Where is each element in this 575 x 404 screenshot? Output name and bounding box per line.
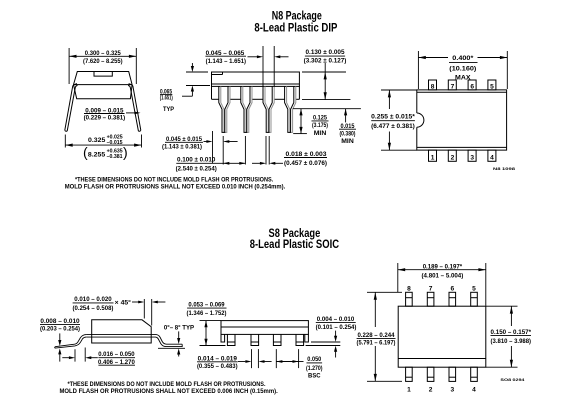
title S8 Package bbox=[250, 228, 339, 251]
svg-text:BSC: BSC bbox=[308, 373, 321, 380]
svg-text:1: 1 bbox=[407, 386, 411, 393]
SOIC top view pin 7 bbox=[427, 292, 434, 306]
SOIC front view lead 2 bbox=[251, 334, 259, 345]
svg-text:(1.651): (1.651) bbox=[160, 95, 173, 102]
svg-text:N8 1098: N8 1098 bbox=[493, 166, 516, 171]
svg-text:7: 7 bbox=[451, 83, 455, 90]
DIP side view lead 3 bbox=[263, 86, 274, 132]
svg-text:(5.791 – 6.197): (5.791 – 6.197) bbox=[357, 340, 396, 347]
svg-text:0.300 – 0.325: 0.300 – 0.325 bbox=[85, 50, 121, 57]
DIP side view lead 4 bbox=[285, 86, 296, 132]
dim 0.150-0.157 (3.810-3.988) body depth bbox=[486, 306, 532, 367]
dim 0.325 +0.025/-0.015 lead span bbox=[65, 135, 141, 161]
svg-text:(6.477 ± 0.381): (6.477 ± 0.381) bbox=[371, 123, 415, 130]
svg-text:(0.203 – 0.254): (0.203 – 0.254) bbox=[40, 326, 80, 333]
dim 0.100±0.010 (2.540±0.254) lead pitch bbox=[176, 136, 246, 173]
svg-text:(1.143 ± 0.381): (1.143 ± 0.381) bbox=[162, 143, 202, 150]
svg-text:5: 5 bbox=[490, 83, 494, 90]
svg-text:(1.270): (1.270) bbox=[306, 365, 323, 372]
svg-text:(10.160): (10.160) bbox=[449, 66, 476, 73]
dim 0.008-0.010 (0.203-0.254) lead thickness bbox=[40, 318, 80, 362]
svg-text:(1.143 – 1.651): (1.143 – 1.651) bbox=[206, 58, 246, 65]
svg-text:8: 8 bbox=[431, 83, 435, 90]
SOIC side view lead line through body bbox=[86, 335, 151, 338]
SOIC front view left end tab bbox=[221, 334, 225, 342]
SOIC front view body bbox=[221, 321, 308, 335]
dim 0.010-0.020 (0.254-0.508) x45 chamfer bbox=[73, 296, 166, 325]
svg-text:N8 Package: N8 Package bbox=[272, 10, 322, 22]
svg-text:0.255 ± 0.015*: 0.255 ± 0.015* bbox=[371, 113, 415, 120]
DIP top view body bbox=[417, 90, 507, 150]
svg-text:0.228 – 0.244: 0.228 – 0.244 bbox=[357, 332, 394, 339]
svg-text:(3.175): (3.175) bbox=[312, 122, 328, 129]
svg-text:0.050: 0.050 bbox=[307, 356, 321, 363]
DIP top view pin 2 bbox=[448, 150, 456, 161]
svg-text:2: 2 bbox=[429, 386, 433, 393]
svg-text:(0.457 ± 0.076): (0.457 ± 0.076) bbox=[284, 160, 327, 167]
DIP top view pin 6 bbox=[468, 80, 476, 90]
SOIC front view lead 3 bbox=[273, 334, 281, 345]
SOIC top view pin 5 bbox=[471, 292, 478, 306]
dim 0.004-0.010 (0.101-0.254) standoff bbox=[306, 316, 357, 357]
SOIC front view lead 4 bbox=[296, 334, 304, 345]
dim 0.065 (1.651) TYP shoulder bbox=[160, 63, 210, 113]
DIP side view body bbox=[212, 72, 300, 86]
svg-text:(1.346 – 1.752): (1.346 – 1.752) bbox=[187, 310, 227, 317]
svg-text:(3.810 – 3.988): (3.810 – 3.988) bbox=[491, 338, 532, 345]
dim 0.014-0.019 (0.355-0.483) lead width bbox=[197, 349, 272, 370]
svg-text:0.010 – 0.020: 0.010 – 0.020 bbox=[74, 296, 112, 303]
svg-text:0.100 ± 0.010: 0.100 ± 0.010 bbox=[177, 157, 216, 164]
svg-text:8-Lead Plastic SOIC: 8-Lead Plastic SOIC bbox=[250, 239, 339, 251]
dim 0.045±0.015 (1.143±0.381) lead entry bbox=[162, 131, 238, 165]
svg-text:2: 2 bbox=[451, 154, 455, 161]
svg-text:4: 4 bbox=[472, 386, 476, 393]
dim 0.053-0.069 (1.346-1.752) body height bbox=[187, 301, 227, 345]
SOIC side view left gull-wing lead bbox=[55, 335, 86, 349]
svg-text:1: 1 bbox=[431, 154, 435, 161]
dim 0.009-0.015 (0.229-0.381) lead thickness bbox=[84, 107, 141, 121]
svg-text:(0.229 – 0.381): (0.229 – 0.381) bbox=[84, 115, 126, 122]
dim 0.018±0.003 (0.457±0.076) pin width bbox=[252, 136, 327, 167]
svg-text:(0.101 – 0.254): (0.101 – 0.254) bbox=[316, 324, 357, 331]
svg-text:MAX: MAX bbox=[455, 75, 471, 82]
DIP side view lead 1 bbox=[219, 86, 230, 132]
dim 0.045-0.065 (1.143-1.651) lead shoulder width bbox=[205, 46, 288, 87]
svg-text:MIN: MIN bbox=[341, 138, 354, 145]
title N8 Package bbox=[254, 10, 337, 34]
DIP top view pin 3 bbox=[468, 150, 476, 161]
svg-text:(0.380): (0.380) bbox=[340, 130, 356, 137]
dim 0.016-0.050 (0.406-1.270) foot length bbox=[62, 348, 135, 367]
svg-text:(4.801 – 5.004): (4.801 – 5.004) bbox=[422, 272, 464, 279]
SOIC top view pin 1 bbox=[406, 367, 413, 381]
SOIC footnote bbox=[59, 381, 277, 395]
DIP side view shoulder boxes bbox=[212, 86, 300, 99]
DIP top view pin1 index notch bbox=[417, 113, 424, 127]
DIP top view pin 4 bbox=[488, 150, 496, 161]
dim 0.189-0.197 (4.801-5.004) body width bbox=[398, 263, 486, 306]
DIP end view index notch bbox=[94, 72, 112, 77]
svg-text:0.004 – 0.010: 0.004 – 0.010 bbox=[317, 316, 355, 323]
dim 0.050 (1.270) BSC lead pitch bbox=[276, 349, 322, 380]
svg-text:0.400*: 0.400* bbox=[452, 55, 473, 62]
svg-text:(0.355 – 0.483): (0.355 – 0.483) bbox=[197, 363, 238, 370]
dim 0.400 (10.160) MAX body width bbox=[418, 51, 507, 89]
svg-text:TYP: TYP bbox=[163, 106, 175, 113]
SOIC front view lead 1 bbox=[227, 334, 235, 345]
DIP top view pin 5 bbox=[488, 80, 496, 90]
DIP end view right lead bbox=[128, 84, 141, 132]
SOIC side view right gull-wing lead bbox=[151, 335, 182, 347]
dim 0-8 TYP lead angle bbox=[158, 324, 195, 357]
svg-text:4: 4 bbox=[490, 154, 494, 161]
svg-text:5: 5 bbox=[472, 286, 476, 293]
SOIC side view body bbox=[92, 320, 152, 343]
svg-text:(2.540 ± 0.254): (2.540 ± 0.254) bbox=[176, 166, 217, 173]
dim 0.255±0.015 (6.477±0.381) body depth bbox=[371, 90, 417, 150]
svg-text:(7.620 – 8.255): (7.620 – 8.255) bbox=[83, 58, 123, 65]
svg-text:7: 7 bbox=[429, 286, 433, 293]
svg-text:MOLD FLASH OR PROTRUSIONS SHAL: MOLD FLASH OR PROTRUSIONS SHALL NOT EXCE… bbox=[65, 183, 286, 190]
svg-text:0.130 ± 0.005: 0.130 ± 0.005 bbox=[306, 49, 345, 56]
svg-text:3: 3 bbox=[470, 154, 474, 161]
svg-text:): ) bbox=[123, 144, 128, 160]
DIP end view body bbox=[74, 72, 133, 99]
dim 0.130±0.005 (3.302±0.127) body height bbox=[302, 49, 350, 100]
SOIC top view pin 8 bbox=[406, 292, 413, 306]
svg-text:0.189 – 0.197*: 0.189 – 0.197* bbox=[423, 263, 463, 270]
svg-text:MOLD FLASH OR PROTRUSIONS SHAL: MOLD FLASH OR PROTRUSIONS SHALL NOT EXCE… bbox=[59, 388, 277, 395]
svg-text:6: 6 bbox=[470, 83, 474, 90]
svg-text:3: 3 bbox=[450, 386, 454, 393]
DIP top view pin 7 bbox=[448, 80, 456, 90]
svg-text:0.018 ± 0.003: 0.018 ± 0.003 bbox=[286, 151, 327, 158]
SOIC top view pin 4 bbox=[471, 367, 478, 381]
svg-text:0.325: 0.325 bbox=[88, 137, 106, 144]
dim 0.300-0.325 (7.620-8.255) bbox=[69, 48, 136, 84]
DIP end view left lead bbox=[65, 84, 78, 132]
svg-text:× 45°: × 45° bbox=[115, 299, 132, 307]
dim 0.125 (3.175) MIN lead length bbox=[293, 109, 361, 138]
svg-text:0.008 – 0.010: 0.008 – 0.010 bbox=[40, 318, 80, 325]
svg-text:SO8 0294: SO8 0294 bbox=[500, 377, 525, 382]
DIP footnote bbox=[65, 177, 286, 191]
DIP top view pin 1 bbox=[429, 150, 437, 161]
SOIC front view right end tab bbox=[305, 334, 309, 342]
SOIC top view body bbox=[398, 306, 486, 367]
svg-text:6: 6 bbox=[450, 286, 454, 293]
svg-text:–0.381: –0.381 bbox=[107, 154, 123, 160]
SOIC top view pin 6 bbox=[449, 292, 456, 306]
svg-text:8.255: 8.255 bbox=[88, 152, 106, 159]
svg-text:8-Lead Plastic DIP: 8-Lead Plastic DIP bbox=[254, 22, 337, 34]
dim 0.228-0.244 (5.791-6.197) overall width bbox=[357, 292, 402, 381]
DIP top view pin 8 bbox=[429, 80, 437, 90]
SOIC top view pin 3 bbox=[449, 367, 456, 381]
svg-text:0°– 8° TYP: 0°– 8° TYP bbox=[164, 324, 195, 332]
svg-text:–0.015: –0.015 bbox=[107, 140, 123, 146]
DIP side view lead 2 bbox=[241, 86, 252, 132]
svg-text:0.053 – 0.069: 0.053 – 0.069 bbox=[188, 301, 224, 308]
dim 0.015 (0.380) MIN standoff bbox=[339, 109, 356, 146]
svg-text:MIN: MIN bbox=[314, 130, 327, 137]
svg-text:8: 8 bbox=[407, 286, 411, 293]
SOIC top view pin 2 bbox=[427, 367, 434, 381]
svg-text:0.016 – 0.050: 0.016 – 0.050 bbox=[98, 351, 135, 358]
svg-text:0.150 – 0.157*: 0.150 – 0.157* bbox=[491, 329, 532, 336]
svg-text:0.014 – 0.019: 0.014 – 0.019 bbox=[198, 355, 238, 362]
svg-text:(0.254 – 0.508): (0.254 – 0.508) bbox=[73, 305, 114, 312]
